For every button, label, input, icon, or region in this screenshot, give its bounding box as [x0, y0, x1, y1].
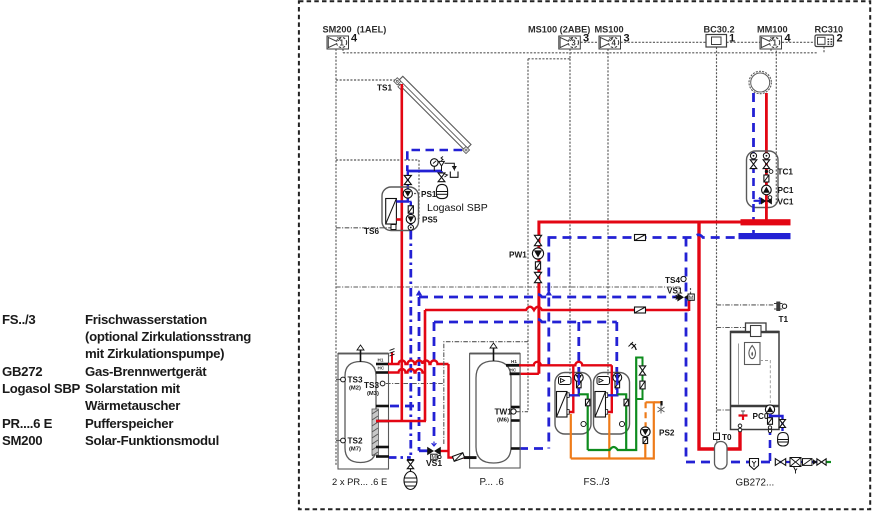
- svg-text:(M2): (M2): [349, 386, 361, 392]
- sensor TW1 (M6): [511, 409, 516, 414]
- sensor T0: [714, 433, 720, 440]
- pipe red wavy HC: [388, 369, 426, 373]
- module BC30.2 icon: [706, 35, 727, 48]
- bus wire: top EMS bus lower line: [343, 52, 817, 54]
- svg-text:T1: T1: [779, 315, 789, 324]
- FS1 orange circulation out: [570, 414, 572, 459]
- module SM200 icon: [327, 36, 349, 49]
- wire MS100 drop to FS station 1: [569, 59, 571, 375]
- pipe blue secondary PS5: [410, 202, 412, 234]
- svg-text:PS2: PS2: [659, 429, 675, 438]
- svg-text:(M6): (M6): [497, 418, 509, 424]
- solar expansion vessel: [436, 184, 447, 198]
- wire BC30.2 drop to boiler T0: [716, 47, 718, 433]
- FS1 green DHW line: [579, 394, 588, 450]
- bus wire: top EMS bus upper line: [581, 41, 600, 43]
- heating circuit symbol: [749, 71, 771, 93]
- boiler GB272 body: [731, 332, 780, 430]
- FS2 heat exchanger: [595, 392, 606, 418]
- wire SM200 to TS6: [336, 227, 391, 229]
- FS2 green DHW line: [617, 394, 626, 450]
- svg-text:TW1: TW1: [495, 408, 513, 417]
- pipe tank2 H1 wavy to PW1 and FS: [519, 362, 612, 366]
- cold water entry symbol: [631, 344, 637, 351]
- flow meter PS5: [408, 206, 413, 213]
- svg-text:(M7): (M7): [349, 447, 361, 453]
- svg-text:3: 3: [571, 38, 576, 47]
- FS2 red feed: [606, 365, 612, 412]
- pump PC0: [765, 405, 774, 414]
- svg-text:2: 2: [837, 33, 843, 45]
- svg-text:TS1: TS1: [377, 84, 392, 93]
- wire BC30.2 to boiler top: [717, 327, 746, 329]
- solar station Logasol SBP outline: [382, 187, 419, 231]
- svg-text:M: M: [689, 295, 693, 301]
- shutoff valves: [750, 160, 757, 169]
- svg-text:1: 1: [340, 38, 345, 47]
- pipe blue PS1 to exchanger: [396, 189, 407, 202]
- pipe blue mid horizontal y297: [419, 294, 681, 297]
- wire MS100 drop to FS station 2: [607, 49, 609, 375]
- pipe blue return long vertical x686: [685, 238, 688, 463]
- station internal pipes: [752, 152, 755, 233]
- pipe solar return blue dashed: [407, 150, 462, 171]
- tank 1 safety relief: [391, 352, 393, 364]
- cold water shutoff valve: [639, 366, 645, 375]
- valve VC1: [754, 198, 764, 204]
- svg-text:4: 4: [785, 33, 792, 45]
- flow setter: [764, 175, 769, 182]
- svg-text:H1: H1: [511, 359, 517, 364]
- FS blue feeds into pumps: [578, 374, 580, 386]
- svg-text:HC: HC: [378, 366, 385, 371]
- svg-text:HC: HC: [510, 368, 517, 373]
- cold water stub green: [827, 461, 832, 463]
- sensor T1: [776, 302, 780, 312]
- heating station outline: [747, 151, 779, 208]
- module MS100 icon: [599, 36, 621, 49]
- pipe heating return blue top: [548, 235, 740, 238]
- buffer tank 1 cabinet: [338, 353, 389, 355]
- FS1 flow meter: [577, 381, 582, 388]
- svg-text:VS1: VS1: [426, 458, 442, 468]
- FS2 controller: [597, 377, 610, 385]
- solar MAG shutoff: [438, 173, 445, 182]
- pipe blue y322 to FS: [434, 319, 617, 322]
- boiler flue: [746, 323, 767, 332]
- FS1 controller: [559, 377, 572, 385]
- pipe red H4: [376, 420, 426, 422]
- tank expansion vessel: [404, 472, 417, 490]
- buffer tank 2 cabinet: [470, 353, 520, 355]
- svg-text:GB272...: GB272...: [736, 478, 775, 489]
- FS1 blue primary: [568, 388, 579, 395]
- pipe blue drop to tank1 H5: [418, 297, 421, 451]
- buffer tank 2 body: [476, 361, 511, 463]
- FS2 pump: [613, 373, 622, 382]
- wire stub SM200 to bus: [342, 49, 344, 53]
- svg-text:TS4: TS4: [665, 276, 680, 285]
- PS2 valve: [643, 438, 648, 444]
- tank 1 air vent: [360, 348, 362, 362]
- pipe circulation orange: [571, 402, 654, 458]
- wire boiler PC0 line: [717, 409, 765, 411]
- fill assembly valves: [775, 459, 785, 466]
- heat exchanger solar: [386, 199, 397, 225]
- FS2 flow meter: [615, 381, 620, 388]
- low loss header: [716, 440, 718, 450]
- FS1 red feed: [568, 365, 574, 412]
- svg-text:3: 3: [583, 33, 589, 45]
- svg-text:FS../3: FS../3: [584, 477, 611, 488]
- pipe heating circuit return blue: [752, 93, 755, 152]
- legend text block: [2, 312, 35, 327]
- wire SM200 to TS1: [336, 79, 395, 81]
- FS2 orange circulation out: [608, 414, 610, 459]
- svg-text:TS3: TS3: [364, 381, 379, 390]
- pipe heating circuit flow red: [765, 93, 768, 152]
- svg-text:1: 1: [773, 38, 778, 47]
- pipe boiler flow thick red: [699, 222, 740, 449]
- sensor TS3 (M3): [380, 381, 385, 386]
- wire SM200 drop: [335, 49, 337, 466]
- svg-text:4: 4: [612, 38, 617, 47]
- tank 1 internal heater hatch: [372, 409, 379, 455]
- thermometers: [750, 153, 756, 159]
- pipe solar return to buffer tank blue dashed: [409, 231, 412, 458]
- pump PS2: [644, 402, 646, 427]
- pipe exchanger bottom red: [396, 218, 402, 221]
- pipe under fill assembly: [776, 461, 817, 463]
- svg-text:3: 3: [624, 33, 630, 45]
- pipe cold water green: [588, 357, 637, 451]
- tank 1 ports: [376, 363, 389, 366]
- pipe PW1 riser red: [539, 222, 741, 374]
- svg-text:PC1: PC1: [778, 186, 794, 195]
- pipe blue return to header bottom: [686, 461, 776, 464]
- module RC310 icon: [815, 35, 834, 47]
- safety valve with discharge pipe and cup: [439, 161, 445, 171]
- wire MS100-2ABE module stub: [569, 49, 571, 59]
- pipe red drop x443 to VS1: [447, 364, 449, 451]
- pipe blue drop to VS1 tank valve: [433, 322, 436, 441]
- pipe blue to tank2 bottom: [519, 447, 549, 450]
- pipe solar safety line blue: [407, 170, 441, 173]
- pipe solar flow red: [400, 84, 403, 421]
- tank drain valve: [410, 459, 412, 471]
- cold water filter: [640, 381, 645, 389]
- wire MS100-2ABE second bus line: [528, 58, 570, 60]
- svg-text:MM100: MM100: [757, 25, 788, 35]
- sensor TS3 (M2): [336, 379, 341, 381]
- boiler burner box with flame: [738, 344, 740, 406]
- pump PC1: [762, 185, 772, 195]
- wire T1 sensor line: [717, 304, 775, 306]
- pipe red wavy H1: [388, 361, 449, 364]
- solar collector: [397, 76, 471, 150]
- svg-text:PC0: PC0: [753, 412, 769, 421]
- svg-text:PS5: PS5: [422, 216, 438, 225]
- FS1 heat exchanger: [557, 392, 568, 418]
- svg-text:2 x PR... .6 E: 2 x PR... .6 E: [332, 476, 387, 487]
- svg-text:PW1: PW1: [509, 251, 527, 260]
- svg-text:MS100 (2ABE): MS100 (2ABE): [528, 25, 590, 35]
- pump PS5: [406, 214, 415, 223]
- pump PS1: [403, 189, 412, 198]
- check valve on blue return: [635, 235, 646, 241]
- pipe red drop x425 to tank: [424, 310, 427, 421]
- module MS100 (2ABE) icon: [559, 36, 581, 49]
- wire MM100 drop to heating station: [775, 47, 777, 205]
- freshwater station FS1 outline: [555, 373, 591, 435]
- FS1 pump: [574, 373, 583, 382]
- sensor TS4 on blue line: [681, 276, 686, 281]
- circulation continuation symbol: [660, 401, 662, 406]
- svg-text:TS2: TS2: [348, 437, 363, 446]
- check valve on red y310: [635, 307, 646, 313]
- manifold return bar blue: [739, 233, 791, 239]
- wire VS1 actuator loop: [444, 342, 528, 444]
- boiler expansion vessel branch: [770, 416, 783, 431]
- pipe red y310 buffer to VS1: [425, 307, 689, 310]
- svg-text:VS1: VS1: [667, 287, 683, 296]
- boiler internal dashed: [760, 361, 770, 404]
- buffer tank 1 body: [345, 362, 376, 463]
- svg-text:TS6: TS6: [364, 227, 379, 236]
- svg-text:T0: T0: [722, 433, 732, 442]
- sensor TC1: [765, 170, 768, 173]
- valve above PW1: [534, 235, 541, 245]
- svg-text:TC1: TC1: [778, 168, 794, 177]
- wire SM200 to Logasol pumps: [336, 159, 419, 161]
- pipe blue FS pump drops: [577, 322, 580, 390]
- manometer: [433, 166, 435, 171]
- thermometer below PS5: [408, 225, 413, 230]
- dirt separator: [750, 459, 759, 470]
- system boundary dashed border: [299, 1, 870, 509]
- tank 2 air vent: [493, 346, 495, 361]
- svg-text:TS3: TS3: [348, 376, 363, 385]
- pipe blue return drop x548: [547, 238, 550, 449]
- boiler drain tap: [739, 416, 748, 421]
- tank 2 ports right: [506, 364, 520, 367]
- svg-text:PS1: PS1: [421, 190, 437, 199]
- pipe PC0 blue down: [769, 414, 772, 462]
- unions on boiler flow: [738, 424, 742, 428]
- svg-text:(M3): (M3): [367, 391, 379, 397]
- svg-text:4: 4: [351, 33, 358, 45]
- svg-text:VC1: VC1: [778, 198, 794, 207]
- svg-text:H1: H1: [378, 358, 384, 363]
- sensor TS6: [391, 225, 396, 230]
- svg-text:1: 1: [729, 33, 735, 45]
- pump PW1: [532, 248, 543, 259]
- svg-text:Logasol SBP: Logasol SBP: [427, 202, 488, 214]
- tank 2 port bottom left: [464, 456, 477, 459]
- valve VS1 tank 3-way: [440, 450, 449, 452]
- manifold flow bar red: [741, 219, 791, 225]
- svg-text:MS100: MS100: [595, 25, 624, 35]
- sensor TS2 (M7): [336, 440, 341, 442]
- valve above PS1: [407, 171, 409, 189]
- wire sensor TS3(M3) line: [386, 383, 444, 385]
- valve below PW1: [534, 272, 541, 282]
- wire MS100-2ABE drop to TW1: [527, 59, 529, 412]
- pipe VS1 to tank2 red with filter: [449, 451, 471, 458]
- flow setter PW1: [535, 262, 540, 269]
- freshwater station FS2 outline: [594, 373, 630, 435]
- svg-text:P... .6: P... .6: [480, 477, 505, 488]
- FS2 blue primary: [607, 388, 618, 395]
- wire RC310 stub: [823, 47, 825, 53]
- wire sensor TS4 line: [336, 286, 681, 288]
- module MM100 icon: [760, 36, 782, 49]
